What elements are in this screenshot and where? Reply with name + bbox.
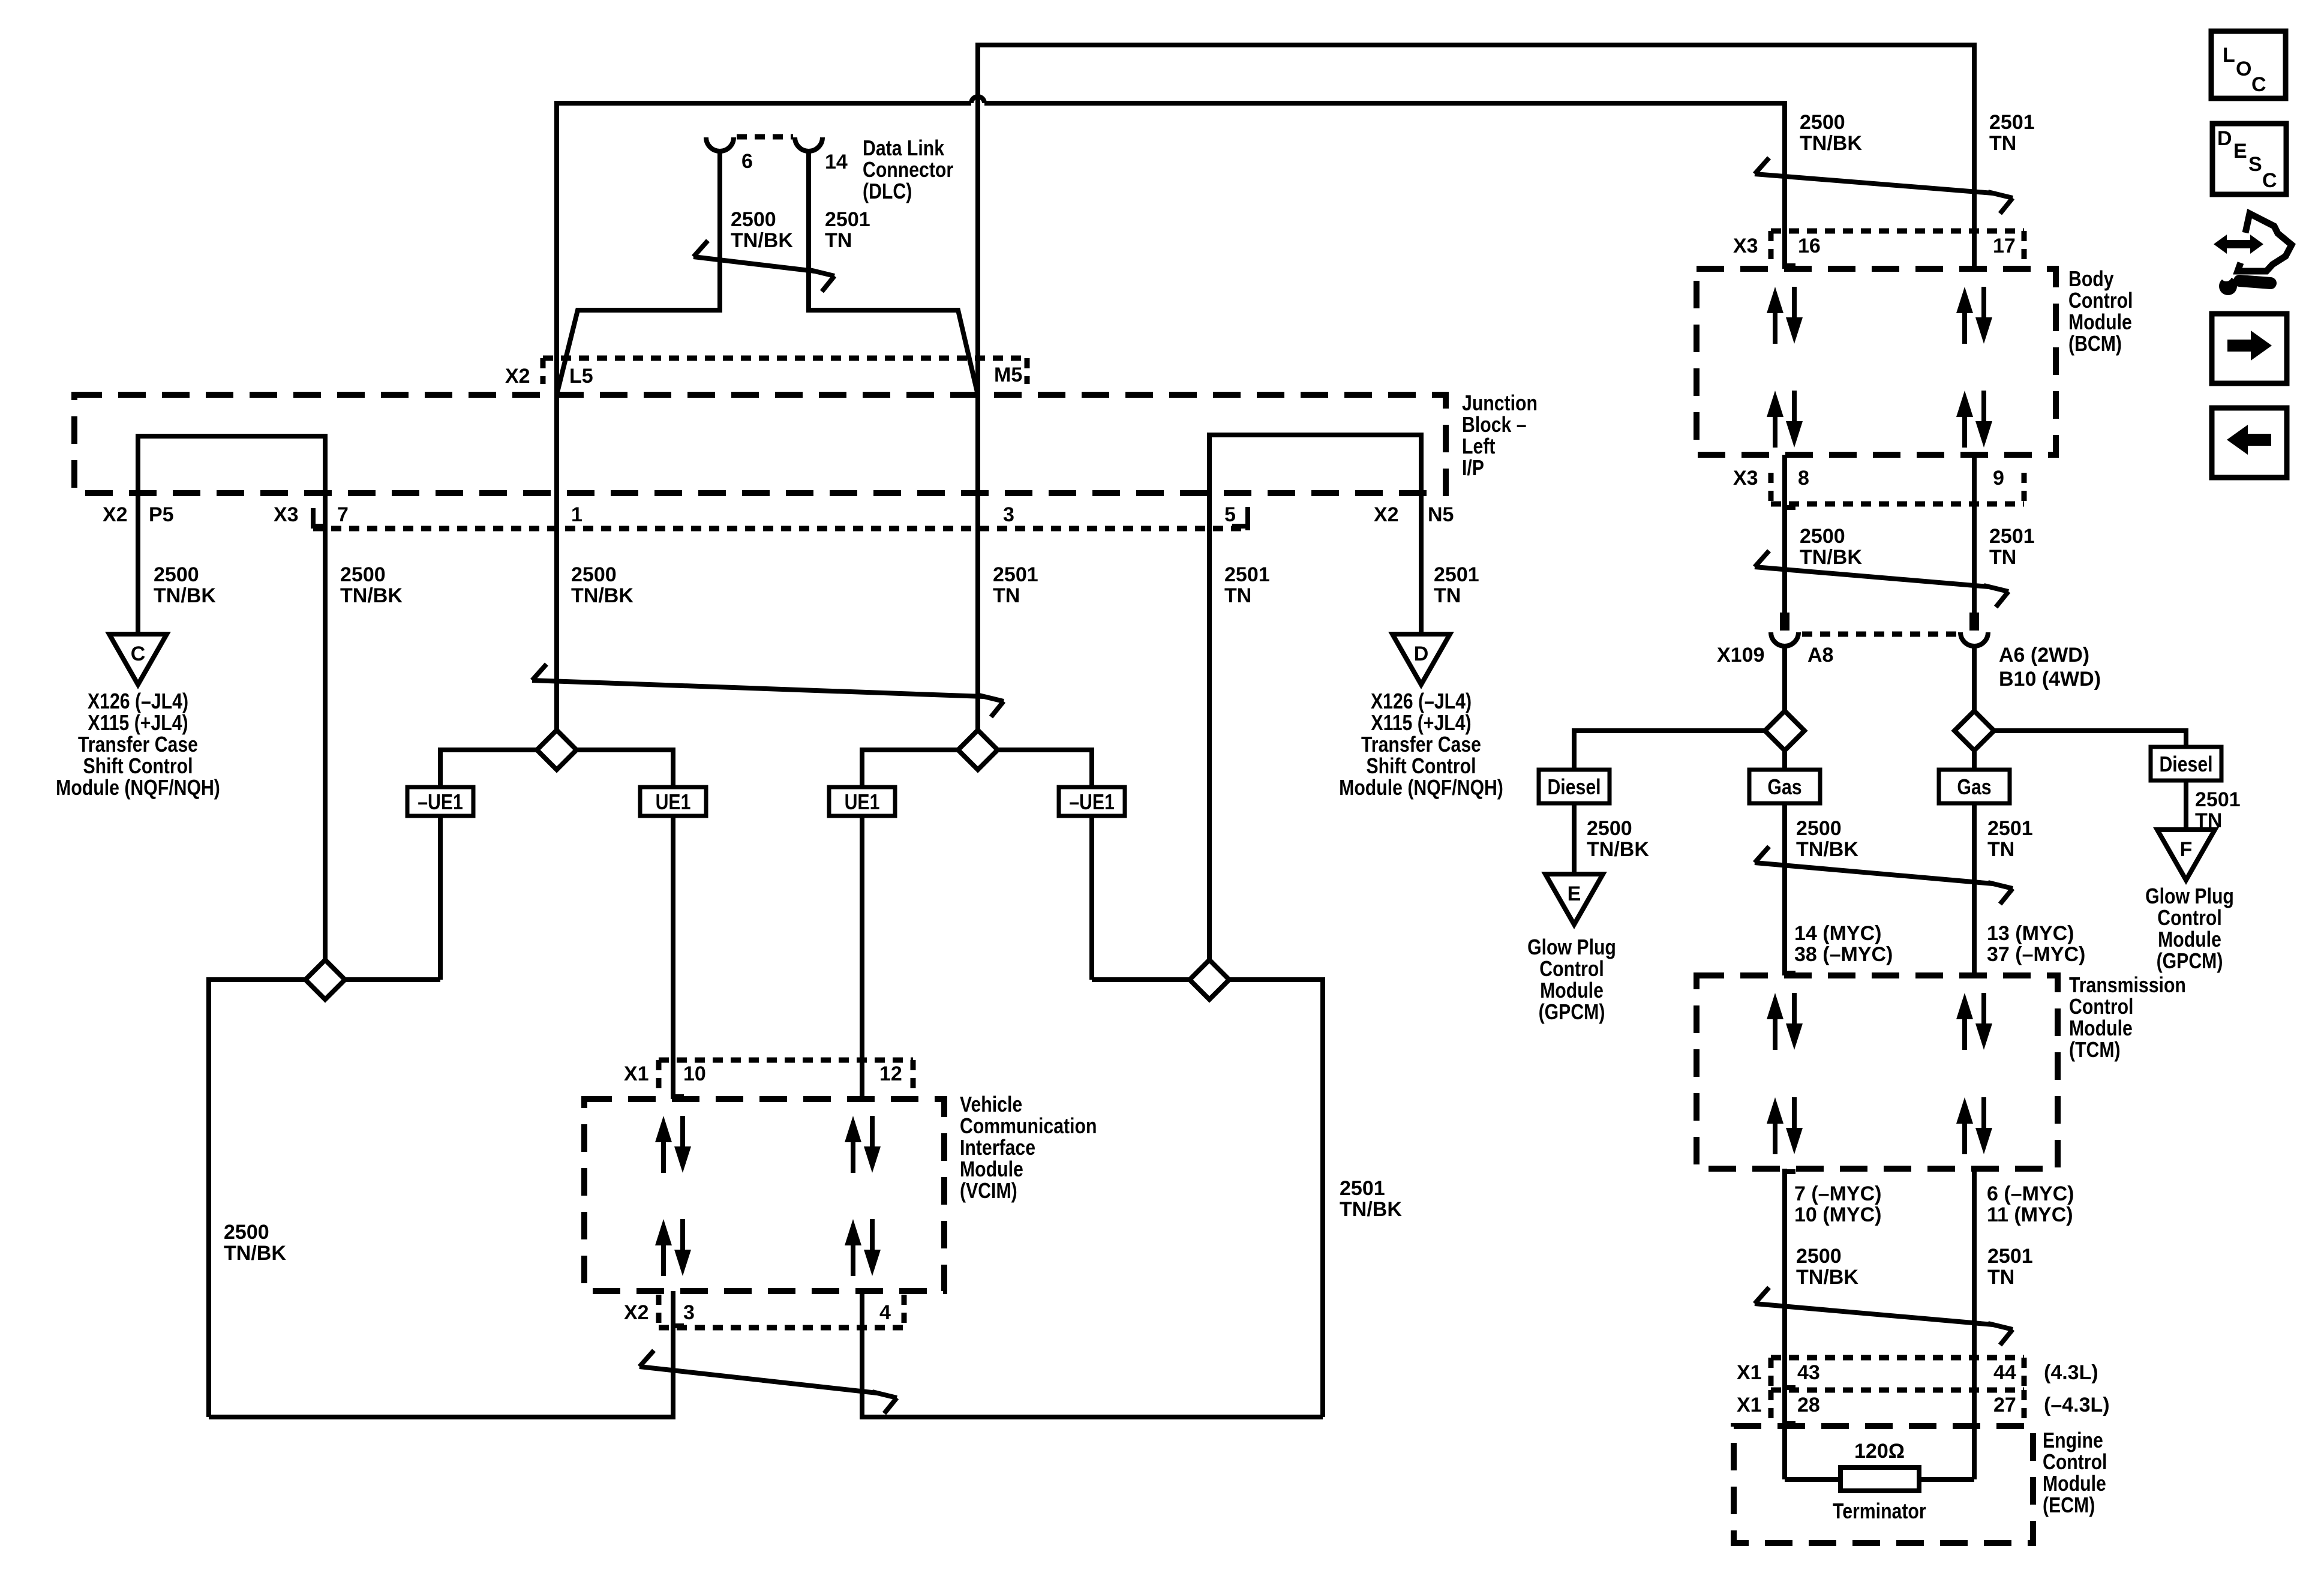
svg-text:2501: 2501 xyxy=(1340,1177,1385,1200)
svg-text:2501: 2501 xyxy=(825,208,870,231)
wire UE1 b to VCIM pin 12 xyxy=(860,816,864,1099)
svg-text:Terminator: Terminator xyxy=(1833,1500,1926,1524)
wire diamond S1 to UE1 xyxy=(577,750,673,787)
wire 2500 TN/BK inner top rail left segment xyxy=(557,103,971,730)
svg-text:X3: X3 xyxy=(1733,235,1758,257)
option box UE1 a xyxy=(640,787,706,816)
svg-text:C: C xyxy=(131,643,146,665)
svg-text:2500: 2500 xyxy=(1800,111,1845,134)
svg-text:2501: 2501 xyxy=(1987,817,2033,840)
svg-text:L5: L5 xyxy=(569,365,593,388)
svg-text:14: 14 xyxy=(825,151,848,173)
wire Diesel right to triangle F xyxy=(2184,781,2188,830)
svg-text:Control: Control xyxy=(1539,957,1604,981)
svg-text:TN: TN xyxy=(993,584,1020,607)
svg-text:14 (MYC): 14 (MYC) xyxy=(1794,922,1881,945)
svg-text:Communication: Communication xyxy=(960,1115,1097,1139)
svg-text:Module (NQF/NQH): Module (NQF/NQH) xyxy=(56,776,220,800)
svg-text:X1: X1 xyxy=(624,1062,649,1085)
icon data communication (arrow, outline, wrench) xyxy=(2214,214,2292,295)
wire diamond S3 left branch to bottom rail xyxy=(209,980,305,1417)
svg-text:8: 8 xyxy=(1798,467,1809,490)
svg-text:Transfer Case: Transfer Case xyxy=(1361,733,1481,757)
svg-text:TN/BK: TN/BK xyxy=(571,584,633,607)
svg-text:43: 43 xyxy=(1797,1361,1820,1384)
data flow arrows TCM left top xyxy=(1767,993,1803,1050)
connector X3 dotted line (BCM bottom) xyxy=(1771,502,2024,507)
svg-text:Junction: Junction xyxy=(1462,392,1538,416)
svg-text:P5: P5 xyxy=(149,503,174,526)
svg-text:X109: X109 xyxy=(1717,644,1764,667)
svg-text:TN/BK: TN/BK xyxy=(154,584,216,607)
svg-text:UE1: UE1 xyxy=(845,791,880,815)
svg-text:(–4.3L): (–4.3L) xyxy=(2044,1394,2110,1416)
svg-text:X3: X3 xyxy=(274,503,299,526)
svg-text:X115 (+JL4): X115 (+JL4) xyxy=(1371,712,1471,736)
svg-text:10 (MYC): 10 (MYC) xyxy=(1794,1203,1881,1226)
wire Gas left to TCM pin xyxy=(1782,803,1787,975)
connector X2 dotted line (VCIM) xyxy=(659,1325,904,1331)
svg-text:27: 27 xyxy=(1993,1394,2016,1416)
svg-text:Transmission: Transmission xyxy=(2069,974,2186,998)
splice diamond S3 xyxy=(305,960,345,999)
svg-text:120Ω: 120Ω xyxy=(1854,1440,1905,1463)
svg-text:Diesel: Diesel xyxy=(2159,753,2212,777)
svg-text:TN: TN xyxy=(1434,584,1461,607)
data flow arrows TCM right top xyxy=(1956,993,1992,1050)
svg-text:37 (–MYC): 37 (–MYC) xyxy=(1987,943,2085,966)
svg-text:TN: TN xyxy=(1989,546,2016,569)
connector X2 L5/M5 dotted line xyxy=(543,356,1025,361)
svg-text:Block –: Block – xyxy=(1462,413,1527,437)
svg-text:Module: Module xyxy=(2043,1472,2106,1496)
svg-text:C: C xyxy=(2262,169,2277,192)
svg-text:X2: X2 xyxy=(505,365,530,388)
svg-text:2501: 2501 xyxy=(1224,563,1270,586)
svg-text:Module (NQF/NQH): Module (NQF/NQH) xyxy=(1339,776,1503,800)
wire TCM pin 6/11 down to ECM xyxy=(1972,1169,1977,1479)
svg-text:(BCM): (BCM) xyxy=(2068,332,2122,356)
option box -UE1 a xyxy=(407,787,473,816)
wire VCIM pin 4 to bottom rail xyxy=(862,1291,1323,1417)
svg-text:X126 (–JL4): X126 (–JL4) xyxy=(1371,690,1472,714)
svg-text:2501: 2501 xyxy=(1434,563,1479,586)
data flow arrows BCM left top xyxy=(1767,287,1803,344)
svg-text:TN/BK: TN/BK xyxy=(731,229,793,252)
svg-text:B10 (4WD): B10 (4WD) xyxy=(1999,668,2101,691)
svg-text:17: 17 xyxy=(1993,235,2016,257)
svg-text:6: 6 xyxy=(741,150,753,173)
wire diamond S5 to Gas box xyxy=(1782,751,1787,770)
wire ECM pin 28 to resistor xyxy=(1785,1477,1840,1482)
module BCM dashed box xyxy=(1697,269,2056,455)
svg-text:N5: N5 xyxy=(1428,503,1454,526)
wire hop over vertical at DLC feed xyxy=(971,97,984,103)
module TCM dashed box xyxy=(1697,975,2058,1169)
svg-text:2501: 2501 xyxy=(1987,1245,2033,1268)
option box Diesel left xyxy=(1539,770,1610,803)
svg-text:X1: X1 xyxy=(1737,1394,1762,1416)
wire diamond S5 to Diesel box xyxy=(1574,731,1765,770)
wire Diesel left to triangle E xyxy=(1572,803,1577,874)
data flow arrows TCM left bottom xyxy=(1767,1097,1803,1154)
wire diamond S2 to UE1 xyxy=(862,750,958,787)
data flow arrows BCM right top xyxy=(1956,287,1992,344)
twisted-pair symbol TCM pair xyxy=(1755,846,2013,904)
connector triangle F (glow plug right) xyxy=(2157,830,2215,880)
svg-text:Engine: Engine xyxy=(2043,1429,2103,1453)
svg-text:(GPCM): (GPCM) xyxy=(2157,950,2223,974)
svg-text:2500: 2500 xyxy=(1796,817,1842,840)
svg-text:TN: TN xyxy=(1989,132,2016,155)
svg-text:O: O xyxy=(2236,58,2251,80)
svg-text:Control: Control xyxy=(2069,995,2133,1019)
svg-text:5: 5 xyxy=(1224,503,1236,526)
twisted-pair symbol junction pair xyxy=(532,664,1004,717)
svg-text:X2: X2 xyxy=(1374,503,1399,526)
svg-text:TN/BK: TN/BK xyxy=(224,1242,286,1265)
junction block internal wire P5 to 7 xyxy=(138,436,325,960)
connector triangle E (glow plug left) xyxy=(1545,874,1603,924)
wire diamond S3 right branch xyxy=(345,977,440,982)
twisted-pair symbol DLC pair xyxy=(693,241,834,292)
twisted-pair symbol BCM top pair xyxy=(1755,158,2013,214)
svg-text:Transfer Case: Transfer Case xyxy=(78,733,198,757)
icon LOC box xyxy=(2211,31,2286,98)
svg-text:TN: TN xyxy=(1987,1266,2014,1289)
splice diamond S1 xyxy=(537,730,577,770)
svg-text:TN/BK: TN/BK xyxy=(340,584,403,607)
svg-text:M5: M5 xyxy=(994,364,1022,386)
svg-text:(ECM): (ECM) xyxy=(2043,1494,2095,1518)
svg-text:1: 1 xyxy=(571,503,582,526)
svg-text:TN: TN xyxy=(1224,584,1251,607)
icon forward arrow box xyxy=(2212,314,2287,383)
svg-text:12: 12 xyxy=(879,1062,902,1085)
wire VCIM pin 3 to bottom rail xyxy=(209,1291,673,1417)
svg-text:TN/BK: TN/BK xyxy=(1800,546,1862,569)
data flow arrows BCM left bottom xyxy=(1767,391,1803,448)
icon DESC box xyxy=(2212,124,2286,194)
terminator resistor xyxy=(1840,1467,1919,1491)
DLC connector dashed link xyxy=(737,134,793,140)
svg-text:9: 9 xyxy=(1993,467,2004,490)
wire diamond S2 to -UE1 xyxy=(998,750,1092,787)
svg-text:TN/BK: TN/BK xyxy=(1800,132,1862,155)
connector X3 dotted line (BCM top) xyxy=(1771,229,2024,234)
svg-text:Module: Module xyxy=(2068,311,2132,335)
svg-text:TN/BK: TN/BK xyxy=(1587,838,1649,861)
svg-text:Gas: Gas xyxy=(1957,776,1991,800)
svg-text:11 (MYC): 11 (MYC) xyxy=(1987,1203,2073,1226)
svg-text:X2: X2 xyxy=(624,1301,649,1324)
connector triangle C (to transfer case left) xyxy=(109,634,167,685)
connector X109 female cup right xyxy=(1960,632,1988,646)
svg-text:2500: 2500 xyxy=(1587,817,1632,840)
connector X109 dotted line xyxy=(1802,632,1957,637)
svg-text:16: 16 xyxy=(1798,235,1821,257)
svg-text:7 (–MYC): 7 (–MYC) xyxy=(1794,1182,1881,1205)
svg-text:Vehicle: Vehicle xyxy=(960,1093,1022,1117)
svg-text:Diesel: Diesel xyxy=(1547,776,1601,800)
svg-text:Shift Control: Shift Control xyxy=(1366,755,1476,779)
svg-text:44: 44 xyxy=(1993,1361,2016,1384)
svg-text:2500: 2500 xyxy=(1800,525,1845,548)
wire BCM pin 8 down to X109 xyxy=(1782,455,1787,613)
module VCIM dashed box xyxy=(584,1099,944,1291)
svg-text:Control: Control xyxy=(2157,906,2221,930)
wire ECM pin 27 to resistor xyxy=(1919,1477,1974,1482)
svg-text:38 (–MYC): 38 (–MYC) xyxy=(1794,943,1893,966)
twisted-pair symbol BCM bottom pair xyxy=(1755,551,2008,607)
wire BCM pin 9 down to X109 xyxy=(1972,455,1977,613)
twisted-pair symbol VCIM pair xyxy=(639,1350,897,1413)
wire UE1 a to VCIM pin 10 xyxy=(671,816,675,1099)
splice diamond S2 xyxy=(958,730,998,770)
svg-text:X126 (–JL4): X126 (–JL4) xyxy=(88,690,188,714)
svg-text:(DLC): (DLC) xyxy=(863,180,912,204)
svg-text:3: 3 xyxy=(683,1301,695,1324)
option box Diesel right xyxy=(2151,747,2221,781)
svg-text:2500: 2500 xyxy=(340,563,386,586)
option box UE1 b xyxy=(829,787,895,816)
svg-text:4: 4 xyxy=(879,1301,891,1324)
svg-text:6 (–MYC): 6 (–MYC) xyxy=(1987,1182,2074,1205)
svg-text:Module: Module xyxy=(2069,1017,2133,1041)
svg-text:X1: X1 xyxy=(1737,1361,1762,1384)
junction block left I/P dashed box xyxy=(74,395,1446,493)
wire TCM pin 7/10 down to ECM xyxy=(1782,1169,1787,1479)
svg-text:3: 3 xyxy=(1003,503,1014,526)
wire diamond S6 to Diesel box xyxy=(1994,731,2186,747)
wire 2501 TN outer top rail xyxy=(978,45,1974,730)
svg-text:E: E xyxy=(1568,882,1581,905)
svg-text:A6 (2WD): A6 (2WD) xyxy=(1999,644,2089,667)
connector triangle D (to transfer case right) xyxy=(1392,634,1450,685)
svg-text:D: D xyxy=(2217,127,2232,150)
wire Gas right to TCM pin xyxy=(1972,803,1977,975)
connector X1 dotted line (VCIM) xyxy=(659,1058,913,1063)
svg-text:A8: A8 xyxy=(1807,644,1833,667)
wire DLC pin 6 to junction block L5 xyxy=(557,151,720,395)
svg-text:2500: 2500 xyxy=(731,208,776,231)
wire diamond S6 to Gas box xyxy=(1972,751,1977,770)
svg-text:TN: TN xyxy=(825,229,852,252)
svg-text:2501: 2501 xyxy=(993,563,1038,586)
wire X109 A8 to diamond S5 xyxy=(1782,646,1787,711)
svg-text:2501: 2501 xyxy=(1989,111,2035,134)
module ECM dashed box xyxy=(1734,1426,2033,1543)
data flow arrows VCIM left bottom xyxy=(655,1219,691,1276)
svg-text:I/P: I/P xyxy=(1462,457,1484,481)
svg-text:C: C xyxy=(2251,73,2266,96)
svg-text:Control: Control xyxy=(2043,1451,2107,1475)
svg-text:13 (MYC): 13 (MYC) xyxy=(1987,922,2074,945)
connector X1 dotted line (ECM 28/27) xyxy=(1771,1388,2024,1393)
svg-text:Module: Module xyxy=(2158,928,2221,952)
svg-text:(VCIM): (VCIM) xyxy=(960,1179,1017,1203)
junction block dotted line left bracket xyxy=(311,508,328,526)
splice diamond S4 xyxy=(1190,960,1229,999)
junction block internal wire 5 to N5 xyxy=(1209,435,1421,960)
svg-text:L: L xyxy=(2223,44,2235,67)
svg-text:Connector: Connector xyxy=(863,158,953,182)
svg-text:E: E xyxy=(2233,140,2247,163)
svg-text:X2: X2 xyxy=(103,503,128,526)
wire -UE1 b to diamond S4 xyxy=(1089,816,1094,980)
svg-text:Control: Control xyxy=(2068,289,2133,313)
svg-text:2501: 2501 xyxy=(1989,525,2035,548)
connector X1 dotted line (ECM 43/44) xyxy=(1771,1355,2024,1361)
connector DLC pin 14 cup xyxy=(795,137,822,151)
data flow arrows VCIM right top xyxy=(845,1116,881,1173)
svg-text:D: D xyxy=(1414,643,1429,665)
svg-text:(GPCM): (GPCM) xyxy=(1539,1001,1605,1025)
option box Gas right xyxy=(1939,770,2010,803)
svg-text:–UE1: –UE1 xyxy=(1069,791,1115,815)
svg-text:7: 7 xyxy=(337,503,349,526)
svg-text:Glow Plug: Glow Plug xyxy=(1527,936,1616,960)
connector X109 female cup left xyxy=(1771,632,1798,646)
wire -UE1 a to diamond S3 xyxy=(438,816,443,980)
svg-text:2500: 2500 xyxy=(571,563,617,586)
connector X109 male pin right xyxy=(1969,613,1979,631)
data flow arrows VCIM left top xyxy=(655,1116,691,1173)
svg-text:F: F xyxy=(2180,838,2193,861)
data flow arrows TCM right bottom xyxy=(1956,1097,1992,1154)
junction block pin dotted line xyxy=(313,526,1249,532)
data flow arrows VCIM right bottom xyxy=(845,1219,881,1276)
option box -UE1 b xyxy=(1059,787,1125,816)
svg-text:Body: Body xyxy=(2068,268,2114,292)
connector DLC pin 6 cup xyxy=(706,137,734,151)
wire 2500 TN/BK inner top rail right segment xyxy=(984,103,1785,269)
svg-text:Left: Left xyxy=(1462,435,1495,459)
svg-text:S: S xyxy=(2248,153,2262,176)
svg-text:2500: 2500 xyxy=(224,1221,269,1244)
svg-text:2501: 2501 xyxy=(2195,788,2241,811)
svg-text:X115 (+JL4): X115 (+JL4) xyxy=(88,712,188,736)
data flow arrows BCM right bottom xyxy=(1956,391,1992,448)
svg-text:Module: Module xyxy=(960,1158,1023,1182)
svg-text:Gas: Gas xyxy=(1767,776,1801,800)
junction block dotted line right bracket xyxy=(1232,507,1248,530)
wire diamond S1 to -UE1 xyxy=(440,750,537,787)
svg-text:Shift Control: Shift Control xyxy=(83,755,193,779)
icon back arrow box xyxy=(2212,408,2287,478)
svg-text:TN/BK: TN/BK xyxy=(1796,1266,1858,1289)
splice diamond S5 xyxy=(1765,711,1804,751)
connector X109 male pin left xyxy=(1780,613,1789,631)
svg-text:TN/BK: TN/BK xyxy=(1796,838,1858,861)
svg-text:28: 28 xyxy=(1797,1394,1820,1416)
svg-text:UE1: UE1 xyxy=(656,791,691,815)
splice diamond S6 xyxy=(1954,711,1994,751)
svg-text:2500: 2500 xyxy=(154,563,199,586)
wire X109 A6 to diamond S6 xyxy=(1972,646,1977,711)
wire diamond S4 right branch to bottom rail xyxy=(1229,980,1323,1417)
option box Gas left xyxy=(1749,770,1820,803)
svg-text:Glow Plug: Glow Plug xyxy=(2145,885,2234,909)
wire DLC pin 14 to junction block M5 xyxy=(809,151,978,395)
svg-text:–UE1: –UE1 xyxy=(418,791,463,815)
svg-text:10: 10 xyxy=(683,1062,706,1085)
svg-text:X3: X3 xyxy=(1733,467,1758,490)
svg-text:2500: 2500 xyxy=(1796,1245,1842,1268)
svg-text:Data Link: Data Link xyxy=(863,137,945,161)
svg-text:Module: Module xyxy=(1540,979,1604,1003)
svg-text:(TCM): (TCM) xyxy=(2069,1038,2121,1062)
twisted-pair symbol ECM pair xyxy=(1755,1287,2013,1345)
svg-text:Interface: Interface xyxy=(960,1136,1035,1160)
wire diamond S4 left branch xyxy=(1092,977,1190,982)
svg-text:TN/BK: TN/BK xyxy=(1340,1198,1402,1221)
svg-text:TN: TN xyxy=(1987,838,2014,861)
svg-text:(4.3L): (4.3L) xyxy=(2044,1361,2098,1384)
